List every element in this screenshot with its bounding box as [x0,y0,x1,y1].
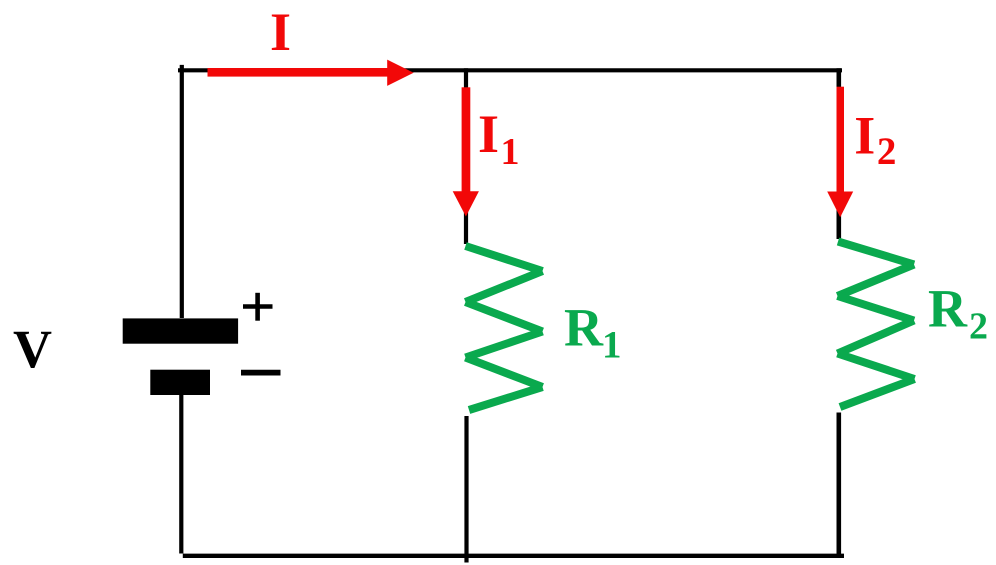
wire branch-2 vertical upper (node to R2) [836,68,841,239]
wire top horizontal [178,68,842,72]
svg-text:R2: R2 [928,279,988,348]
resistor R2 zigzag [838,242,915,408]
svg-text:I1: I1 [478,104,520,173]
current arrow I2 (branch 2, pointing down) [827,87,853,218]
current arrow I1 (branch 1, pointing down) [453,87,479,216]
wire branch-2 vertical lower (R2 to bottom) [836,413,841,556]
wire branch-1 vertical lower (R1 to bottom) [464,416,468,563]
battery V positive plate [123,318,238,343]
resistor R1 zigzag [466,246,543,410]
wire left vertical (battery branch) [180,65,184,318]
battery V negative plate [150,370,210,395]
wire branch-1 vertical upper (node to R1) [464,68,468,244]
svg-text:V: V [13,319,52,379]
svg-text:R1: R1 [564,298,622,367]
current arrow I (top, pointing right) [208,60,414,86]
wire left vertical lower (battery to bottom) [179,395,183,554]
battery minus terminal mark [241,370,281,376]
svg-text:I: I [270,2,291,62]
battery plus terminal mark [243,293,273,321]
svg-text:I2: I2 [854,106,896,174]
wire bottom horizontal [183,554,844,558]
